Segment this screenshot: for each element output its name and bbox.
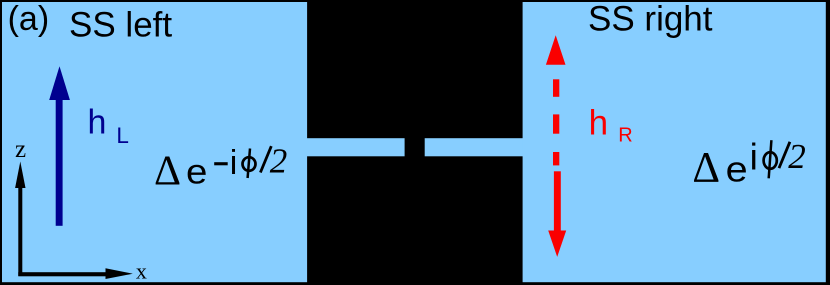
svg-text:i: i [230,144,238,182]
svg-text:L: L [116,123,129,148]
SS right superconductor block [523,2,826,282]
svg-text:SS left: SS left [69,5,172,44]
svg-text:SS right: SS right [588,0,713,38]
svg-text:Δ: Δ [692,144,720,191]
gap label left: Delta e^(-i phi/2) [154,142,287,195]
svg-text:2: 2 [270,142,288,181]
svg-text:h: h [88,103,107,141]
right lead bar [425,138,524,156]
arrow h_R up head (red, dashed shaft) [546,35,566,165]
gap label right: Delta e^(i phi/2) [692,137,805,192]
svg-text:h: h [589,103,608,142]
svg-text:Δ: Δ [154,148,181,194]
phi glyph (right), drawn: ellipse + vertical stroke [764,152,777,169]
arrow h_R down (red, solid) [548,171,566,257]
x axis arrowhead [106,268,133,279]
coordinate axes [15,162,133,280]
svg-text:2: 2 [788,137,806,176]
x axis shaft [18,272,106,276]
svg-text:x: x [136,259,147,284]
left lead bar [306,138,405,156]
exchange field arrow h_L (dark blue, pointing up) [49,66,70,226]
z axis arrowhead [15,162,25,189]
svg-text:e: e [726,150,748,190]
svg-text:R: R [618,124,632,146]
svg-text:z: z [15,136,26,163]
phi glyph (left), drawn: ellipse + vertical stroke [243,157,256,171]
svg-text:(a): (a) [8,0,50,38]
SS left superconductor block [2,2,307,282]
svg-text:e: e [186,152,207,191]
svg-text:i: i [750,137,758,178]
z axis shaft [18,186,22,276]
